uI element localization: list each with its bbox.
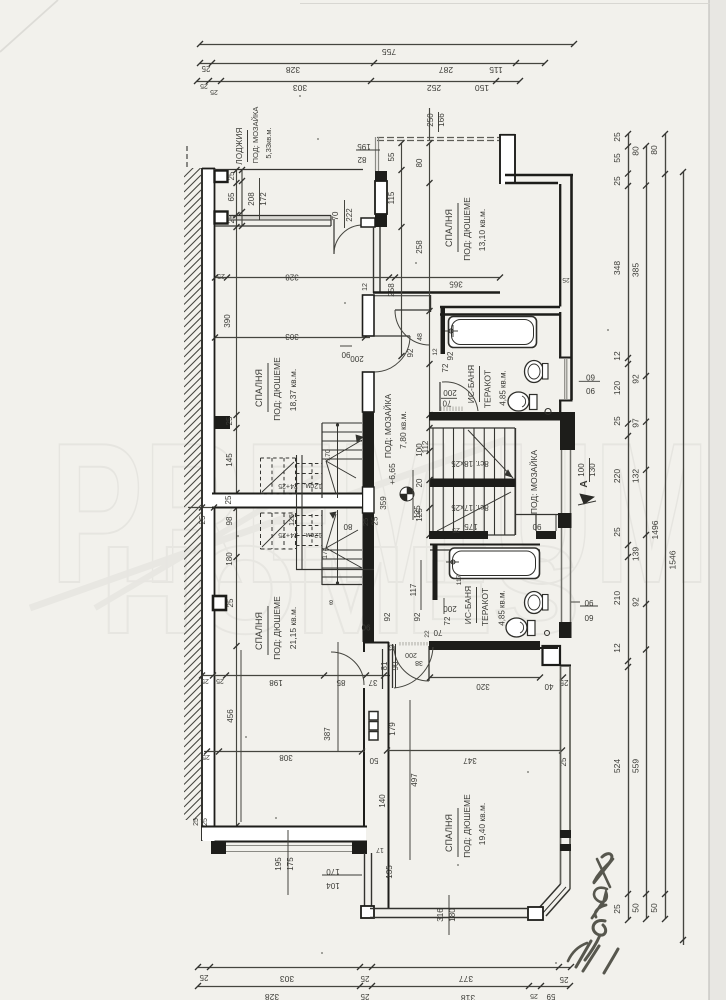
wall corridor-west black2	[363, 513, 375, 642]
bedroom19 east window band	[560, 666, 562, 884]
hall door arc bedroom19	[394, 647, 433, 688]
svg-text:50: 50	[631, 903, 641, 913]
stairwell bottom line	[296, 569, 374, 571]
svg-text:12см.: 12см.	[304, 531, 322, 538]
svg-text:25: 25	[559, 975, 568, 984]
svg-text:92: 92	[406, 348, 415, 357]
svg-text:25: 25	[202, 753, 210, 760]
svg-text:ЛОДЖИЯ: ЛОДЖИЯ	[235, 127, 244, 164]
dim line 320	[430, 677, 540, 679]
svg-text:90: 90	[586, 386, 595, 395]
svg-text:175: 175	[286, 857, 295, 871]
svg-text:328: 328	[286, 65, 300, 75]
svg-text:70: 70	[433, 628, 442, 637]
partition bottom rooms	[363, 642, 365, 652]
entry alcove	[543, 646, 561, 665]
bedroom19 chamfer	[546, 889, 570, 916]
svg-text:25: 25	[360, 974, 369, 983]
svg-text:25: 25	[199, 973, 208, 982]
door bedroom1837 leaf+arc	[374, 335, 410, 337]
svg-text:ПОД: МОЗАЙКА: ПОД: МОЗАЙКА	[528, 450, 539, 515]
property dashed line top-left	[186, 146, 188, 168]
dimension chain right D total 1546	[683, 172, 685, 945]
page fold mark top-left corner	[0, 0, 58, 52]
svg-text:180: 180	[225, 552, 234, 566]
dim line y277 25-328-258	[215, 277, 500, 279]
svg-text:117: 117	[456, 574, 463, 585]
svg-text:25: 25	[530, 992, 538, 999]
svg-text:140: 140	[378, 794, 387, 808]
svg-text:320: 320	[476, 682, 490, 691]
svg-text:303: 303	[285, 332, 299, 341]
svg-text:25: 25	[216, 677, 224, 684]
svg-text:524: 524	[612, 759, 622, 773]
svg-text:37: 37	[368, 678, 377, 687]
svg-text:25: 25	[201, 64, 210, 73]
svg-text:80: 80	[649, 145, 659, 155]
svg-text:104: 104	[326, 881, 340, 890]
svg-text:347: 347	[463, 756, 477, 765]
svg-text:HOMES: HOMES	[100, 521, 580, 660]
svg-text:25: 25	[612, 416, 622, 426]
svg-text:ПОД: ДЮШЕМЕ: ПОД: ДЮШЕМЕ	[272, 357, 282, 421]
svg-text:328: 328	[285, 273, 299, 282]
svg-text:ПОД: ДЮШЕМЕ: ПОД: ДЮШЕМЕ	[462, 794, 472, 858]
bathtub upper	[449, 317, 537, 348]
dim line 347	[387, 750, 562, 752]
door bedroom2115 gap+arc	[331, 652, 364, 685]
svg-text:117: 117	[409, 583, 418, 596]
svg-text:115: 115	[387, 191, 396, 204]
svg-text:55: 55	[612, 153, 622, 163]
svg-text:ТЕРАКОТ: ТЕРАКОТ	[483, 370, 493, 408]
svg-text:59: 59	[546, 992, 555, 1000]
toilet upper	[530, 395, 538, 410]
bedroom19 sw-corner square	[528, 907, 543, 920]
stair dashed turn lower	[301, 514, 303, 546]
svg-text:139: 139	[631, 547, 641, 561]
svg-text:195: 195	[274, 857, 283, 871]
svg-text:303: 303	[293, 83, 307, 93]
svg-text:170: 170	[325, 449, 332, 461]
svg-text:115: 115	[489, 65, 503, 75]
balcony column left	[211, 841, 226, 854]
svg-text:25: 25	[452, 526, 460, 533]
svg-text:25: 25	[193, 818, 200, 826]
svg-text:ПОД: ДЮШЕМЕ: ПОД: ДЮШЕМЕ	[462, 197, 472, 261]
right wall window lower	[561, 528, 563, 622]
loggia right wall column	[375, 171, 387, 181]
svg-text:25: 25	[201, 677, 209, 684]
wall corridor-west seg white	[363, 372, 375, 412]
bedroom2115 dim 387	[337, 642, 339, 751]
bedroom2115 south wall	[202, 828, 366, 841]
stair flight upper-left solid winders	[322, 422, 362, 424]
bathroom2 door jamb+arc	[428, 646, 430, 681]
svg-text:328: 328	[265, 992, 279, 1000]
svg-text:ИС-БАНЯ: ИС-БАНЯ	[466, 365, 476, 403]
loggia top edge line	[214, 169, 363, 171]
svg-text:92: 92	[383, 612, 392, 621]
bedroom19 south wall	[370, 908, 528, 910]
dim chain left interior 390-25-145-98-180	[236, 170, 238, 826]
wall bedroom13 north	[505, 174, 573, 177]
svg-text:220: 220	[612, 469, 622, 483]
svg-text:ИС-БАНЯ: ИС-БАНЯ	[463, 586, 473, 624]
svg-text:18,37 кв.м.: 18,37 кв.м.	[288, 369, 298, 411]
bedroom2115 dim 456	[240, 650, 242, 822]
svg-text:174: 174	[322, 547, 329, 559]
dimension chain top row2 25-328-287-115	[200, 63, 545, 65]
toilet lower	[528, 621, 536, 636]
svg-text:456: 456	[226, 709, 235, 723]
svg-text:25: 25	[224, 495, 233, 504]
svg-text:200: 200	[350, 354, 364, 363]
loggia parapet railing	[229, 216, 331, 221]
dimension chain bottom row1 25-303-25-377-25	[198, 967, 571, 969]
svg-text:+6,65: +6,65	[387, 463, 397, 485]
svg-text:48: 48	[417, 333, 424, 341]
balcony dim 195/175	[287, 830, 289, 895]
svg-text:365: 365	[449, 280, 463, 289]
svg-text:125: 125	[289, 514, 296, 526]
bedroom2115 dim 308	[204, 751, 365, 753]
svg-text:150: 150	[475, 83, 489, 93]
balcony railing right	[364, 853, 366, 906]
bathroom1 west wall	[441, 306, 446, 354]
svg-text:132: 132	[631, 469, 641, 483]
svg-text:12: 12	[362, 283, 369, 291]
svg-text:ПОД: ДЮШЕМЕ: ПОД: ДЮШЕМЕ	[272, 596, 282, 660]
svg-text:70: 70	[331, 211, 340, 220]
svg-text:85: 85	[336, 678, 345, 687]
svg-text:90: 90	[341, 350, 350, 359]
stair landing bar	[429, 479, 516, 488]
svg-text:198: 198	[269, 678, 283, 687]
loggia door leaf and swing arc	[333, 219, 335, 254]
svg-text:179: 179	[388, 722, 397, 736]
svg-text:1496: 1496	[650, 520, 660, 539]
washbasin lower	[525, 592, 544, 614]
svg-text:5,33кв.м.: 5,33кв.м.	[264, 127, 273, 158]
bathroom2 north wall segs	[429, 531, 488, 539]
svg-text:390: 390	[223, 314, 232, 328]
dimension chain bottom row2 328-25-318-25-59	[198, 986, 570, 988]
svg-text:559: 559	[631, 759, 641, 773]
wall bedroom13 south	[373, 291, 500, 294]
svg-text:348: 348	[612, 261, 622, 275]
column left top2	[215, 212, 228, 224]
svg-text:12: 12	[432, 348, 439, 356]
svg-text:252: 252	[427, 83, 441, 93]
svg-text:20: 20	[415, 478, 424, 487]
wall corridor-west black1	[363, 412, 375, 487]
svg-text:92: 92	[631, 374, 641, 384]
svg-text:497: 497	[410, 773, 419, 787]
svg-text:222: 222	[345, 208, 354, 222]
column left mid1	[214, 416, 230, 429]
svg-text:250: 250	[426, 113, 435, 127]
svg-text:СПАЛНЯ: СПАЛНЯ	[254, 612, 264, 650]
svg-text:ПОД: МОЗАЙКА: ПОД: МОЗАЙКА	[382, 394, 393, 459]
svg-text:258: 258	[387, 283, 396, 297]
svg-text:92: 92	[631, 597, 641, 607]
right wall below window	[559, 401, 561, 412]
stairwell west wall thin	[296, 455, 298, 570]
svg-text:308: 308	[279, 753, 293, 762]
svg-text:A: A	[579, 480, 590, 487]
svg-text:55: 55	[387, 152, 396, 161]
svg-text:8ст. 18x25: 8ст. 18x25	[451, 459, 489, 468]
svg-text:60: 60	[584, 613, 593, 622]
dimension chain right A (25/55/348/120/220/210/524)	[628, 134, 630, 920]
stair flight upper-right	[429, 427, 515, 429]
svg-text:21,15 кв.м.: 21,15 кв.м.	[288, 607, 298, 649]
svg-text:12: 12	[612, 351, 622, 361]
bathroom1 north wall	[440, 306, 560, 308]
svg-text:25: 25	[612, 527, 622, 537]
bathroom1 valve circle	[545, 409, 551, 415]
dimension chain top row3 25-303-252-150	[197, 81, 520, 83]
right wall black seg4	[559, 622, 572, 638]
svg-text:25: 25	[202, 818, 209, 826]
svg-text:208: 208	[247, 192, 256, 206]
svg-text:72: 72	[441, 363, 450, 372]
balcony railing block	[361, 906, 374, 918]
svg-text:8: 8	[329, 598, 333, 605]
threshold bathroom2 door	[399, 642, 401, 646]
svg-text:7,80 кв.м.: 7,80 кв.м.	[398, 411, 408, 449]
svg-text:19,40 кв.м.: 19,40 кв.м.	[477, 803, 487, 845]
svg-text:65: 65	[227, 192, 236, 201]
hall dim line y675	[202, 675, 390, 677]
svg-text:25: 25	[360, 992, 369, 1000]
bathroom1 south wall	[429, 412, 561, 421]
svg-text:60: 60	[586, 373, 595, 382]
svg-text:50: 50	[369, 756, 378, 765]
svg-text:200: 200	[443, 604, 457, 613]
svg-text:145: 145	[225, 453, 234, 467]
svg-text:1546: 1546	[668, 550, 678, 569]
svg-text:24+25: 24+25	[278, 531, 298, 538]
wall mid-left horizontal	[212, 494, 362, 508]
svg-text:ТЕРАКОТ: ТЕРАКОТ	[480, 588, 490, 626]
svg-text:72: 72	[443, 616, 452, 625]
svg-text:ПОД: МОЗАЙКА: ПОД: МОЗАЙКА	[251, 107, 260, 164]
bedroom13 door leaf+arc	[395, 309, 430, 311]
svg-text:755: 755	[382, 47, 396, 57]
balcony column right	[352, 841, 367, 854]
svg-text:92: 92	[446, 351, 455, 360]
svg-text:25: 25	[227, 214, 236, 223]
svg-text:90: 90	[532, 522, 541, 531]
svg-text:90: 90	[361, 623, 370, 632]
svg-text:СПАЛНЯ: СПАЛНЯ	[444, 209, 454, 247]
svg-text:25: 25	[612, 904, 622, 914]
svg-text:125: 125	[415, 508, 424, 522]
washbasin upper	[525, 361, 544, 383]
svg-text:25: 25	[371, 516, 380, 525]
stair flight lower-left solid winders	[322, 549, 362, 551]
stair dashed flight upper	[260, 458, 262, 494]
watermark PREMIUM HOMES	[30, 402, 710, 660]
svg-text:175: 175	[464, 522, 478, 531]
svg-text:100: 100	[577, 463, 586, 477]
svg-text:25: 25	[612, 132, 622, 142]
dimension chain top total 755	[200, 44, 574, 46]
bedroom19 north wall	[429, 641, 540, 650]
svg-text:25: 25	[217, 272, 225, 279]
svg-text:17: 17	[376, 846, 384, 853]
window dashed line top	[377, 137, 499, 139]
column left mid2	[213, 596, 226, 610]
column left top1	[215, 171, 228, 183]
hatching adjacent wall strip	[184, 160, 201, 845]
bathroom1 door arc	[439, 382, 441, 411]
dimension chain right B (80/385/92/97/132/139/559)	[646, 146, 648, 919]
svg-text:12см.: 12см.	[304, 482, 322, 489]
right wall black seg3	[558, 513, 572, 528]
bathroom2 west wall	[433, 545, 438, 600]
bathroom2 tub top wall line	[430, 544, 540, 546]
svg-text:318: 318	[461, 993, 475, 1000]
svg-text:25: 25	[200, 82, 208, 89]
loggia depth dim 25-65-25	[241, 170, 243, 226]
bathroom2 south wall	[429, 641, 540, 650]
svg-text:80: 80	[415, 158, 424, 167]
svg-text:287: 287	[439, 65, 453, 75]
svg-text:120: 120	[612, 381, 622, 395]
wall corridor-west junction	[363, 487, 375, 513]
svg-text:97: 97	[631, 418, 641, 428]
svg-text:82: 82	[357, 155, 366, 164]
stair dashed flight lower	[260, 513, 262, 549]
left exterior wall	[202, 168, 215, 841]
svg-text:200: 200	[405, 651, 417, 658]
svg-text:25: 25	[226, 598, 235, 607]
svg-text:303: 303	[280, 974, 294, 984]
svg-text:25: 25	[225, 416, 234, 425]
wall corridor-west upper	[363, 295, 375, 336]
svg-text:387: 387	[323, 727, 332, 741]
ventilation squares	[369, 712, 378, 721]
dim chain stairs 100-20-125	[429, 415, 431, 535]
svg-text:25: 25	[612, 176, 622, 186]
bedroom19 ne corner walls	[540, 647, 542, 649]
dimension chain right C total 1496	[665, 134, 667, 919]
svg-text:210: 210	[612, 591, 622, 605]
svg-text:200: 200	[443, 388, 457, 397]
svg-text:СПАЛНЯ: СПАЛНЯ	[444, 814, 454, 852]
svg-text:50: 50	[649, 903, 659, 913]
scan speckles	[317, 138, 319, 140]
wall entry top vertical	[500, 134, 515, 184]
dim line y337 303	[215, 337, 370, 339]
svg-text:258: 258	[415, 240, 424, 254]
svg-text:100: 100	[415, 443, 424, 457]
svg-text:13,10 кв.м.: 13,10 кв.м.	[477, 209, 487, 251]
right wall window mid	[561, 450, 563, 513]
window right wall upper gap	[564, 359, 566, 399]
stair dashed turn upper	[301, 463, 303, 494]
svg-text:СПАЛНЯ: СПАЛНЯ	[254, 369, 264, 407]
balcony window lines	[218, 845, 360, 847]
svg-text:316: 316	[436, 908, 445, 922]
svg-text:135: 135	[385, 865, 394, 879]
svg-text:385: 385	[631, 263, 641, 277]
svg-text:359: 359	[379, 496, 388, 510]
svg-text:98: 98	[225, 516, 234, 525]
svg-text:40: 40	[544, 682, 553, 691]
svg-text:172: 172	[259, 192, 268, 206]
dim chain interior 55-115-258	[401, 143, 403, 356]
svg-text:12: 12	[612, 643, 622, 653]
svg-text:70: 70	[442, 399, 451, 408]
svg-text:38: 38	[415, 659, 423, 666]
svg-text:377: 377	[459, 974, 473, 984]
svg-text:92: 92	[413, 612, 422, 621]
wall block right of bathroom1	[560, 412, 575, 450]
scan right edge band	[709, 0, 726, 1000]
svg-text:80: 80	[343, 522, 352, 531]
partition wall loggia-corridor	[373, 227, 375, 293]
svg-text:25: 25	[210, 88, 218, 95]
dim chain interior 80-258-48	[429, 143, 431, 415]
svg-text:25: 25	[562, 276, 570, 283]
svg-text:24+25: 24+25	[278, 482, 298, 489]
handwritten note II etazh	[568, 854, 618, 973]
svg-text:4,85 кв.м.: 4,85 кв.м.	[498, 590, 507, 626]
stair flight lower-right	[432, 487, 434, 535]
bathroom2 valve circle	[545, 631, 550, 636]
wall right exterior upper	[570, 174, 573, 400]
svg-text:25: 25	[361, 518, 370, 526]
svg-text:4,85 кв.м.: 4,85 кв.м.	[499, 370, 508, 406]
bathtub lower	[450, 548, 540, 579]
hall door to bedroom19 jamb	[392, 644, 394, 688]
svg-text:90: 90	[391, 661, 400, 670]
svg-text:25: 25	[198, 515, 207, 524]
bedroom19 east wall rungs	[560, 830, 571, 838]
threshold bathroom1 door	[440, 407, 442, 412]
svg-text:80: 80	[631, 146, 641, 156]
svg-text:22: 22	[424, 630, 431, 638]
svg-text:8ст. 17x25: 8ст. 17x25	[451, 503, 489, 512]
